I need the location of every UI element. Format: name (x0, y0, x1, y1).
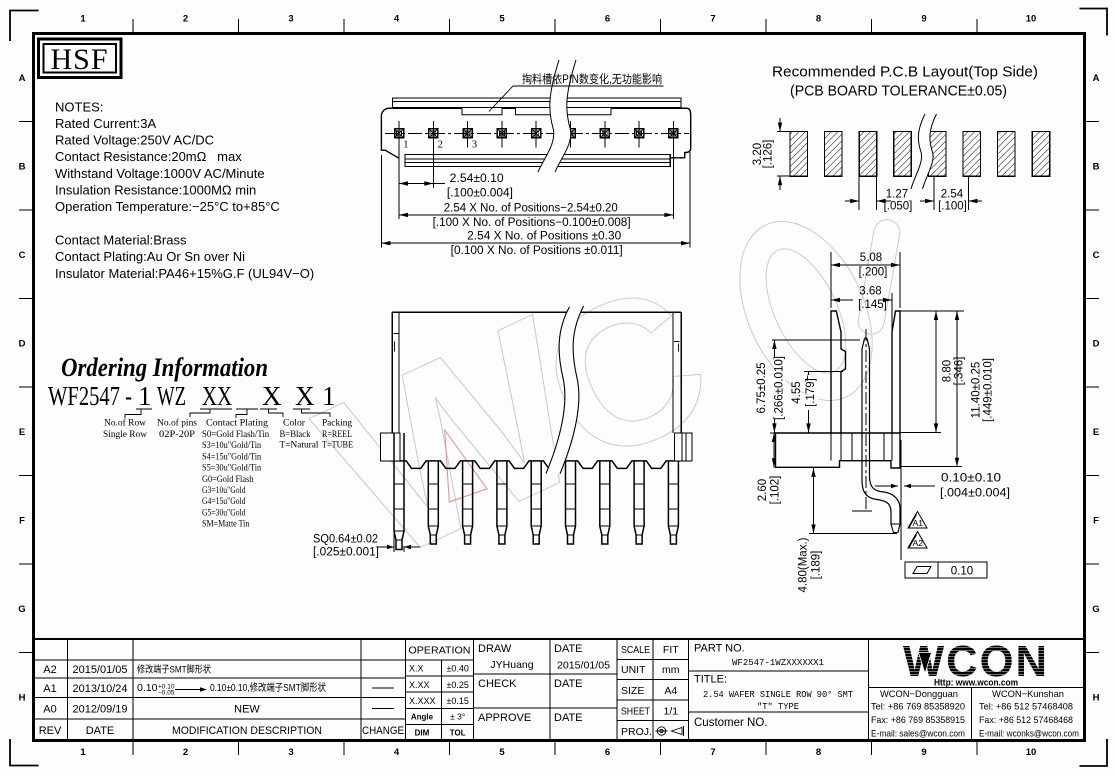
PCB pad height dimension 3.20 (777, 131, 790, 133)
svg-text:A2: A2 (43, 664, 56, 676)
svg-text:DIM: DIM (415, 729, 430, 738)
svg-text:Tel: +86 769 85358920: Tel: +86 769 85358920 (871, 702, 965, 713)
svg-text:[.100]: [.100] (938, 201, 967, 213)
svg-text:1/1: 1/1 (663, 706, 678, 718)
side view: left wall (831, 311, 846, 433)
svg-text:S4=15u"Gold/Tin: S4=15u"Gold/Tin (202, 451, 261, 462)
svg-text:0.10: 0.10 (951, 566, 973, 578)
svg-text:10: 10 (1026, 14, 1037, 25)
svg-text:[.102]: [.102] (769, 476, 781, 505)
zone ticks left/right (19, 121, 33, 123)
svg-text:Insulator Material:PA46+15%G.F: Insulator Material:PA46+15%G.F (UL94V−O) (55, 266, 314, 281)
svg-text:H: H (1093, 692, 1100, 703)
svg-text:G: G (18, 604, 25, 615)
WCON logo block (867, 639, 869, 741)
svg-text:HSF: HSF (50, 43, 108, 76)
svg-text:Http: www.wcon.com: Http: www.wcon.com (934, 678, 1018, 688)
svg-text:TOL: TOL (450, 729, 466, 738)
svg-text:D: D (19, 338, 26, 349)
HSF logo box (39, 39, 122, 78)
watermark WCON logo outline (288, 200, 902, 613)
svg-text:A2: A2 (913, 538, 924, 548)
dimension 5.08 (830, 252, 832, 308)
svg-text:APPROVE: APPROVE (478, 712, 531, 724)
svg-text:6: 6 (605, 747, 610, 758)
svg-text:[.050]: [.050] (884, 201, 913, 213)
side view: SMT bent lead (862, 433, 891, 524)
svg-text:1: 1 (403, 140, 408, 151)
top view break lines (538, 60, 576, 172)
svg-text:S5=30u"Gold/Tin: S5=30u"Gold/Tin (202, 463, 261, 474)
PCB pad 3 (859, 132, 877, 177)
svg-text:X.XXX: X.XXX (409, 696, 436, 706)
svg-text:掏料槽依PIN数变化,无功能影响: 掏料槽依PIN数变化,无功能影响 (522, 72, 662, 86)
svg-text:4.80(Max.): 4.80(Max.) (798, 537, 810, 592)
svg-text:±0.40: ±0.40 (446, 664, 468, 674)
svg-text:(PCB BOARD TOLERANCE±0.05): (PCB BOARD TOLERANCE±0.05) (790, 83, 1007, 100)
svg-text:G5=30u"Gold: G5=30u"Gold (202, 507, 246, 518)
svg-text:修改端子SMT脚形状: 修改端子SMT脚形状 (137, 664, 211, 676)
side view: center pin tip (862, 338, 870, 433)
svg-text:[.145]: [.145] (858, 299, 887, 311)
svg-text:Contact Plating: Contact Plating (206, 418, 268, 429)
svg-text:PART NO.: PART NO. (694, 643, 745, 655)
svg-text:T=TUBE: T=TUBE (322, 440, 353, 451)
PCB pad 7 (998, 132, 1016, 177)
svg-text:E-mail: sales@wcon.com: E-mail: sales@wcon.com (871, 729, 965, 740)
svg-text:B=Black: B=Black (280, 429, 311, 440)
top view: core-pull notch 2 (516, 108, 612, 115)
front view pin 8 (634, 461, 644, 544)
PCB pad width dimension 1.27 (858, 176, 860, 210)
svg-text:3: 3 (288, 747, 293, 758)
svg-text:6: 6 (605, 14, 610, 25)
front view: left mounting flange (381, 433, 401, 461)
svg-text:R=REEL: R=REEL (322, 429, 352, 440)
svg-text:1: 1 (138, 381, 152, 411)
svg-text:G3=10u"Gold: G3=10u"Gold (202, 485, 246, 496)
svg-text:5.08: 5.08 (860, 252, 882, 264)
front view: left latch window (394, 334, 400, 352)
PCB pad 4 (894, 132, 912, 177)
svg-text:A: A (19, 73, 26, 84)
top view pin 7 pad (604, 121, 606, 148)
svg-text:NOTES:: NOTES: (55, 100, 103, 115)
svg-text:X: X (295, 381, 315, 411)
svg-text:SQ0.64±0.02: SQ0.64±0.02 (313, 534, 378, 546)
top view: core-pull notch 1 (462, 108, 502, 115)
PCB pad 2 (825, 132, 843, 177)
svg-text:2015/01/05: 2015/01/05 (557, 660, 610, 672)
svg-text:SM=Matte Tin: SM=Matte Tin (202, 519, 249, 530)
svg-text:Customer NO.: Customer NO. (694, 717, 768, 729)
front view: right latch window (674, 342, 680, 352)
svg-text:mm: mm (662, 664, 680, 676)
operation tolerance table (405, 659, 473, 661)
svg-text:[.179]: [.179] (805, 378, 817, 407)
svg-text:[.449±0.010]: [.449±0.010] (983, 358, 995, 422)
PCB pitch dimension 2.54 (933, 176, 935, 210)
svg-text:−0.05: −0.05 (158, 690, 175, 697)
front view dimension SQ0.64 (393, 533, 395, 552)
svg-text:±0.15: ±0.15 (446, 696, 468, 706)
svg-text:9: 9 (921, 747, 926, 758)
svg-text:2012/09/19: 2012/09/19 (73, 704, 128, 716)
top view pin 1 pad (398, 121, 400, 148)
PCB pad 1 (790, 132, 808, 177)
front view pin 3 (463, 461, 473, 544)
PCB pad 6 (963, 132, 981, 177)
svg-text:0.10: 0.10 (137, 682, 158, 694)
svg-text:WCON−Dongguan: WCON−Dongguan (880, 689, 958, 700)
top view pin 6 pad (570, 121, 572, 148)
svg-text:A1: A1 (913, 518, 924, 528)
underlines of part number fields (136, 408, 152, 410)
svg-text:Insulation Resistance:1000MΩ m: Insulation Resistance:1000MΩ min (55, 183, 256, 198)
svg-text:[.126]: [.126] (763, 140, 775, 169)
svg-text:OPERATION: OPERATION (409, 645, 471, 657)
svg-text:7: 7 (710, 14, 715, 25)
svg-text:WCON−Kunshan: WCON−Kunshan (992, 689, 1064, 700)
svg-text:CHANGE: CHANGE (362, 725, 404, 737)
top view pin 8 pad (638, 121, 640, 148)
front view pin 9 (668, 461, 678, 544)
svg-text:JYHuang: JYHuang (490, 659, 533, 671)
svg-text:G0=Gold Flash: G0=Gold Flash (202, 474, 253, 485)
svg-text:Fax: +86 512 57468468: Fax: +86 512 57468468 (979, 715, 1073, 726)
svg-text:UNIT: UNIT (621, 664, 646, 676)
svg-text:Packing: Packing (322, 418, 352, 429)
top view pin 2 pad (432, 121, 434, 148)
svg-text:S0=Gold Flash/Tin: S0=Gold Flash/Tin (202, 429, 269, 440)
svg-text:A0: A0 (43, 704, 56, 716)
svg-text:2: 2 (183, 14, 188, 25)
svg-text:A1: A1 (43, 683, 56, 695)
svg-text:[0.100 X No. of Positions ±0.0: [0.100 X No. of Positions ±0.011] (451, 245, 623, 257)
svg-text:B: B (19, 161, 26, 172)
svg-text:T=Natural: T=Natural (280, 440, 319, 451)
svg-text:0.10±0.10,修改端子SMT脚形状: 0.10±0.10,修改端子SMT脚形状 (210, 681, 326, 694)
dimension 11.40 (900, 466, 962, 468)
revision table (33, 659, 405, 661)
svg-text:WF2547 -: WF2547 - (48, 381, 132, 411)
top view: mating strip (393, 98, 682, 108)
svg-text:[.346]: [.346] (954, 357, 966, 386)
top view dimension 2.54±0.10 pitch (398, 145, 400, 219)
svg-text:11.40±0.25: 11.40±0.25 (971, 362, 983, 419)
svg-text:1: 1 (322, 381, 336, 411)
dimension 4.80 max (809, 533, 897, 535)
svg-text:± 3°: ± 3° (450, 712, 465, 722)
svg-text:DATE: DATE (554, 643, 583, 655)
svg-text:XX: XX (202, 381, 232, 411)
svg-text:9: 9 (921, 14, 926, 25)
svg-text:WF2547-1WZXXXXXX1: WF2547-1WZXXXXXX1 (732, 658, 824, 668)
dimension 3.68 (891, 293, 893, 330)
svg-text:SCALE: SCALE (621, 644, 650, 656)
svg-text:2.54 X No. of Positions ±0.30: 2.54 X No. of Positions ±0.30 (467, 231, 621, 243)
dimension 6.75 (772, 339, 860, 341)
svg-text:C: C (1093, 250, 1100, 261)
svg-text:Ordering Information: Ordering Information (61, 353, 268, 382)
svg-text:1: 1 (80, 14, 86, 25)
revision triangle A2 (908, 532, 927, 549)
svg-text:3: 3 (288, 14, 293, 25)
svg-text:Color: Color (283, 418, 306, 429)
svg-text:8: 8 (816, 747, 821, 758)
svg-text:2: 2 (438, 140, 443, 151)
svg-text:2.60: 2.60 (757, 479, 769, 501)
top view: body outline (381, 108, 398, 158)
svg-text:2.54 X No. of Positions−2.54±0: 2.54 X No. of Positions−2.54±0.20 (444, 203, 618, 215)
svg-text:02P-20P: 02P-20P (159, 429, 196, 440)
svg-text:FIT: FIT (663, 644, 679, 656)
side view: pin centerline (865, 329, 867, 512)
svg-text:1: 1 (80, 747, 86, 758)
svg-text:F: F (19, 515, 25, 526)
svg-text:DATE: DATE (554, 712, 583, 724)
front view pin 1 (394, 433, 404, 550)
svg-text:Fax: +86 769 85358915: Fax: +86 769 85358915 (871, 715, 965, 726)
svg-text:E: E (19, 427, 25, 438)
svg-text:6.75±0.25: 6.75±0.25 (756, 362, 768, 413)
top view: horizontal centerline (385, 132, 689, 134)
svg-text:10: 10 (1026, 747, 1037, 758)
svg-text:X.XX: X.XX (409, 680, 430, 690)
svg-text:X.X: X.X (409, 664, 424, 674)
front view: body outline (392, 311, 681, 313)
svg-text:5: 5 (499, 14, 505, 25)
top view dimension overall length (380, 155, 382, 248)
draw/check/approve block (549, 639, 551, 741)
side view: base internal lines (830, 433, 832, 461)
svg-text:A4: A4 (664, 685, 677, 697)
svg-text:Rated Voltage:250V AC/DC: Rated Voltage:250V AC/DC (55, 133, 214, 148)
front view pin 2 (428, 461, 438, 544)
svg-text:SHEET: SHEET (621, 706, 650, 718)
svg-text:8.80: 8.80 (942, 360, 954, 382)
front view break lines (546, 306, 584, 474)
sheet corner trim marks (10, 11, 39, 42)
side view: right wall (892, 311, 900, 433)
svg-text:Rated Current:3A: Rated Current:3A (55, 116, 156, 131)
top view pin 5 pad (535, 121, 537, 148)
svg-text:G: G (1092, 604, 1099, 615)
svg-text:2.54±0.10: 2.54±0.10 (450, 173, 504, 185)
zone ticks top/bottom (132, 19, 134, 33)
side view: base block (776, 433, 901, 468)
svg-text:DRAW: DRAW (478, 643, 512, 655)
svg-text:±0.25: ±0.25 (446, 680, 468, 690)
dimension 8.80 (900, 310, 964, 312)
flatness tolerance frame 0.10 (905, 562, 987, 578)
svg-text:Withstand Voltage:1000V AC/Min: Withstand Voltage:1000V AC/Minute (55, 166, 265, 181)
svg-text:2015/01/05: 2015/01/05 (73, 664, 128, 676)
svg-text:Tel: +86 512 57468408: Tel: +86 512 57468408 (979, 702, 1073, 713)
svg-text:2.54: 2.54 (941, 189, 964, 201)
svg-text:[.004±0.004]: [.004±0.004] (940, 488, 1010, 500)
front view pin 7 (600, 461, 610, 544)
svg-text:No.of pins: No.of pins (157, 418, 197, 429)
svg-text:1.27: 1.27 (886, 189, 908, 201)
svg-text:8: 8 (816, 14, 821, 25)
leader lines to field labels (125, 409, 141, 418)
svg-text:Contact Resistance:20mΩ max: Contact Resistance:20mΩ max (55, 149, 242, 164)
svg-text:3.68: 3.68 (859, 286, 881, 298)
PCB pad 8 (1032, 132, 1050, 177)
svg-text:WZ: WZ (157, 381, 186, 411)
side view: lead tip (891, 524, 900, 533)
top view dimension positions-2.54 (672, 145, 674, 219)
PCB pad 5 (928, 132, 946, 177)
revision triangle A1 (908, 512, 927, 529)
svg-text:4: 4 (394, 747, 400, 758)
svg-text:2: 2 (183, 747, 188, 758)
svg-text:NEW: NEW (234, 704, 260, 716)
svg-text:S3=10u"Gold/Tin: S3=10u"Gold/Tin (202, 440, 261, 451)
svg-text:Recommended P.C.B Layout(Top S: Recommended P.C.B Layout(Top Side) (772, 64, 1038, 81)
PCB break lines (911, 114, 937, 189)
front view: scalloped bottom edge (392, 461, 681, 469)
svg-text:PROJ.: PROJ. (621, 726, 652, 738)
dimension 4.55 (804, 371, 843, 373)
svg-text:4.55: 4.55 (791, 381, 803, 403)
svg-text:DATE: DATE (86, 725, 115, 737)
svg-text:No.of Row: No.of Row (104, 418, 147, 429)
scale/unit/size/sheet/proj table (652, 639, 654, 741)
svg-text:X: X (262, 381, 282, 411)
top view: bottom lead strip (405, 155, 670, 167)
svg-text:D: D (1093, 338, 1100, 349)
svg-text:0.10±0.10: 0.10±0.10 (941, 473, 1001, 485)
front view: right mounting flange (675, 433, 693, 461)
watermark red triangle (445, 430, 487, 502)
svg-text:2.54 WAFER SINGLE ROW 90° SMT: 2.54 WAFER SINGLE ROW 90° SMT (703, 690, 854, 700)
title block outer lines (33, 638, 1085, 640)
svg-text:F: F (1093, 515, 1099, 526)
projection angle symbol (656, 726, 684, 736)
dimension 0.10 coplanarity offset (875, 485, 898, 487)
change column dashes (372, 687, 394, 689)
front view pin 5 (531, 461, 541, 544)
svg-text:5: 5 (499, 747, 505, 758)
svg-text:Operation Temperature:−25°C to: Operation Temperature:−25°C to+85°C (55, 199, 280, 214)
svg-text:C: C (19, 250, 26, 261)
svg-text:3: 3 (472, 140, 477, 151)
svg-text:7: 7 (710, 747, 715, 758)
svg-text:H: H (19, 692, 26, 703)
svg-text:[.100±0.004]: [.100±0.004] (447, 188, 513, 200)
front view pin 4 (497, 461, 507, 544)
svg-text:2013/10/24: 2013/10/24 (73, 683, 128, 695)
svg-text:[.266±0.010]: [.266±0.010] (774, 356, 786, 420)
side view: pcb reference line (900, 440, 902, 560)
top view pin 9 pad (672, 121, 674, 148)
svg-text:MODIFICATION DESCRIPTION: MODIFICATION DESCRIPTION (172, 725, 322, 737)
part no / title / customer block (689, 670, 869, 672)
svg-text:[.025±0.001]: [.025±0.001] (313, 547, 379, 559)
svg-text:B: B (1093, 161, 1100, 172)
top view pin 4 pad (501, 121, 503, 148)
svg-text:"T" TYPE: "T" TYPE (757, 702, 799, 712)
svg-text:E: E (1093, 427, 1099, 438)
top view pin 3 pad (467, 121, 469, 148)
svg-text:[.189]: [.189] (811, 551, 823, 580)
front view pin 6 (566, 461, 576, 544)
svg-text:DATE: DATE (554, 678, 583, 690)
svg-text:E-mail: wconks@wcon.com: E-mail: wconks@wcon.com (979, 729, 1079, 740)
svg-text:TITLE:: TITLE: (694, 674, 727, 686)
svg-text:G4=15u"Gold: G4=15u"Gold (202, 496, 246, 507)
svg-text:REV: REV (39, 725, 62, 737)
svg-text:Angle: Angle (411, 713, 434, 722)
svg-text:Contact Material:Brass: Contact Material:Brass (55, 233, 187, 248)
svg-text:CHECK: CHECK (478, 678, 517, 690)
svg-text:Single Row: Single Row (103, 429, 148, 440)
svg-text:4: 4 (394, 14, 400, 25)
svg-text:[.200]: [.200] (859, 267, 888, 279)
svg-text:A: A (1093, 73, 1100, 84)
svg-text:[.100 X No. of Positions−0.100: [.100 X No. of Positions−0.100±0.008] (433, 217, 631, 229)
dimension 2.60 (773, 433, 775, 467)
svg-text:SIZE: SIZE (621, 685, 644, 697)
svg-text:Contact Plating:Au Or Sn over: Contact Plating:Au Or Sn over Ni (55, 249, 245, 264)
